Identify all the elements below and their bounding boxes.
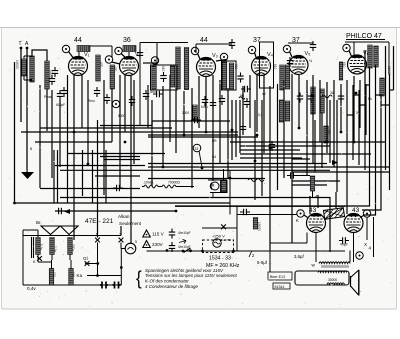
svg-text:400: 400	[99, 62, 103, 68]
svg-text:X: X	[364, 242, 367, 247]
svg-text:5000: 5000	[118, 114, 125, 118]
svg-text:V₃: V₃	[212, 53, 218, 59]
svg-text:4/m10pF: 4/m10pF	[178, 245, 191, 249]
svg-text:54: 54	[212, 155, 216, 159]
svg-text:610: 610	[161, 66, 165, 72]
svg-text:300v: 300v	[71, 244, 75, 251]
svg-text:3,6µf: 3,6µf	[294, 254, 304, 259]
svg-text:MF = 260 KHz: MF = 260 KHz	[206, 263, 240, 269]
svg-text:115 V: 115 V	[152, 232, 165, 237]
svg-text:5: 5	[135, 240, 137, 244]
svg-text:K-Of des condensator: K-Of des condensator	[145, 279, 189, 284]
svg-text:4 Condensateur de filtrage: 4 Condensateur de filtrage	[145, 284, 199, 289]
svg-text:610pF: 610pF	[56, 103, 65, 107]
svg-text:10000: 10000	[49, 70, 53, 79]
svg-text:30000: 30000	[328, 278, 337, 282]
svg-text:Gl: Gl	[83, 256, 88, 261]
svg-text:V₅: V₅	[305, 51, 311, 57]
svg-text:B: B	[30, 147, 32, 151]
svg-text:15000: 15000	[257, 222, 261, 231]
svg-text:K: K	[296, 218, 299, 223]
svg-text:23: 23	[195, 147, 199, 151]
svg-text:Amu: Amu	[150, 90, 157, 94]
svg-text:Br,: Br,	[36, 220, 42, 225]
svg-text:Tensions sur les lampes pour 1: Tensions sur les lampes pour 115V seulem…	[145, 273, 238, 278]
svg-text:0,4v: 0,4v	[27, 286, 36, 291]
svg-text:4mµF: 4mµF	[340, 243, 348, 247]
svg-text:610: 610	[273, 64, 277, 70]
svg-text:400: 400	[113, 66, 117, 72]
svg-text:PHILCO 47: PHILCO 47	[346, 33, 382, 40]
svg-text:115: 115	[71, 272, 75, 277]
svg-text:s: s	[120, 232, 122, 236]
svg-text:230V: 230V	[152, 242, 164, 247]
svg-text:K: K	[33, 259, 36, 264]
svg-text:40: 40	[223, 184, 227, 188]
svg-text:T: T	[19, 41, 22, 47]
svg-text:Alkan: Alkan	[118, 214, 130, 219]
svg-text:5R: 5R	[212, 139, 217, 143]
svg-text:4: 4	[369, 246, 372, 251]
svg-text:610: 610	[342, 62, 346, 68]
svg-text:2,5v: 2,5v	[53, 246, 57, 252]
svg-text:.10mΩ.: .10mΩ.	[143, 181, 154, 185]
svg-text:5-6µf: 5-6µf	[257, 260, 268, 265]
svg-text:36: 36	[123, 37, 131, 44]
svg-text:25000: 25000	[387, 66, 391, 75]
svg-text:Ka: Ka	[77, 273, 83, 278]
svg-text:47E - 221: 47E - 221	[85, 218, 114, 225]
svg-text:Beer E13: Beer E13	[270, 275, 285, 279]
svg-text:s: s	[96, 232, 98, 236]
svg-text:4/m10pF: 4/m10pF	[178, 231, 191, 235]
svg-text:Rk: Rk	[368, 97, 372, 101]
svg-text:51341: 51341	[275, 285, 285, 289]
svg-text:5R: 5R	[240, 94, 245, 98]
svg-text:⅛: ⅛	[309, 59, 312, 63]
svg-text:44: 44	[74, 37, 82, 44]
svg-text:V₄: V₄	[267, 52, 274, 58]
svg-text:xd: xd	[262, 92, 266, 96]
svg-text:0,1: 0,1	[258, 113, 263, 117]
svg-text:2000: 2000	[182, 111, 189, 115]
svg-text:1534 - 33: 1534 - 33	[209, 256, 231, 262]
svg-text:300: 300	[375, 50, 379, 56]
svg-text:115: 115	[52, 272, 56, 277]
svg-text:V₁: V₁	[84, 52, 90, 58]
svg-text:10000: 10000	[15, 60, 19, 69]
svg-text:34: 34	[356, 111, 360, 115]
svg-text:6,3v: 6,3v	[39, 244, 43, 250]
svg-text:Pmax: Pmax	[44, 95, 53, 99]
svg-text:3R: 3R	[326, 130, 330, 135]
svg-text:Seulement: Seulement	[119, 221, 142, 226]
svg-text:{: {	[136, 266, 142, 288]
svg-text:44: 44	[200, 37, 208, 44]
svg-text:34: 34	[330, 91, 334, 95]
svg-text:610: 610	[234, 64, 238, 70]
svg-text:Rmu: Rmu	[88, 99, 95, 103]
